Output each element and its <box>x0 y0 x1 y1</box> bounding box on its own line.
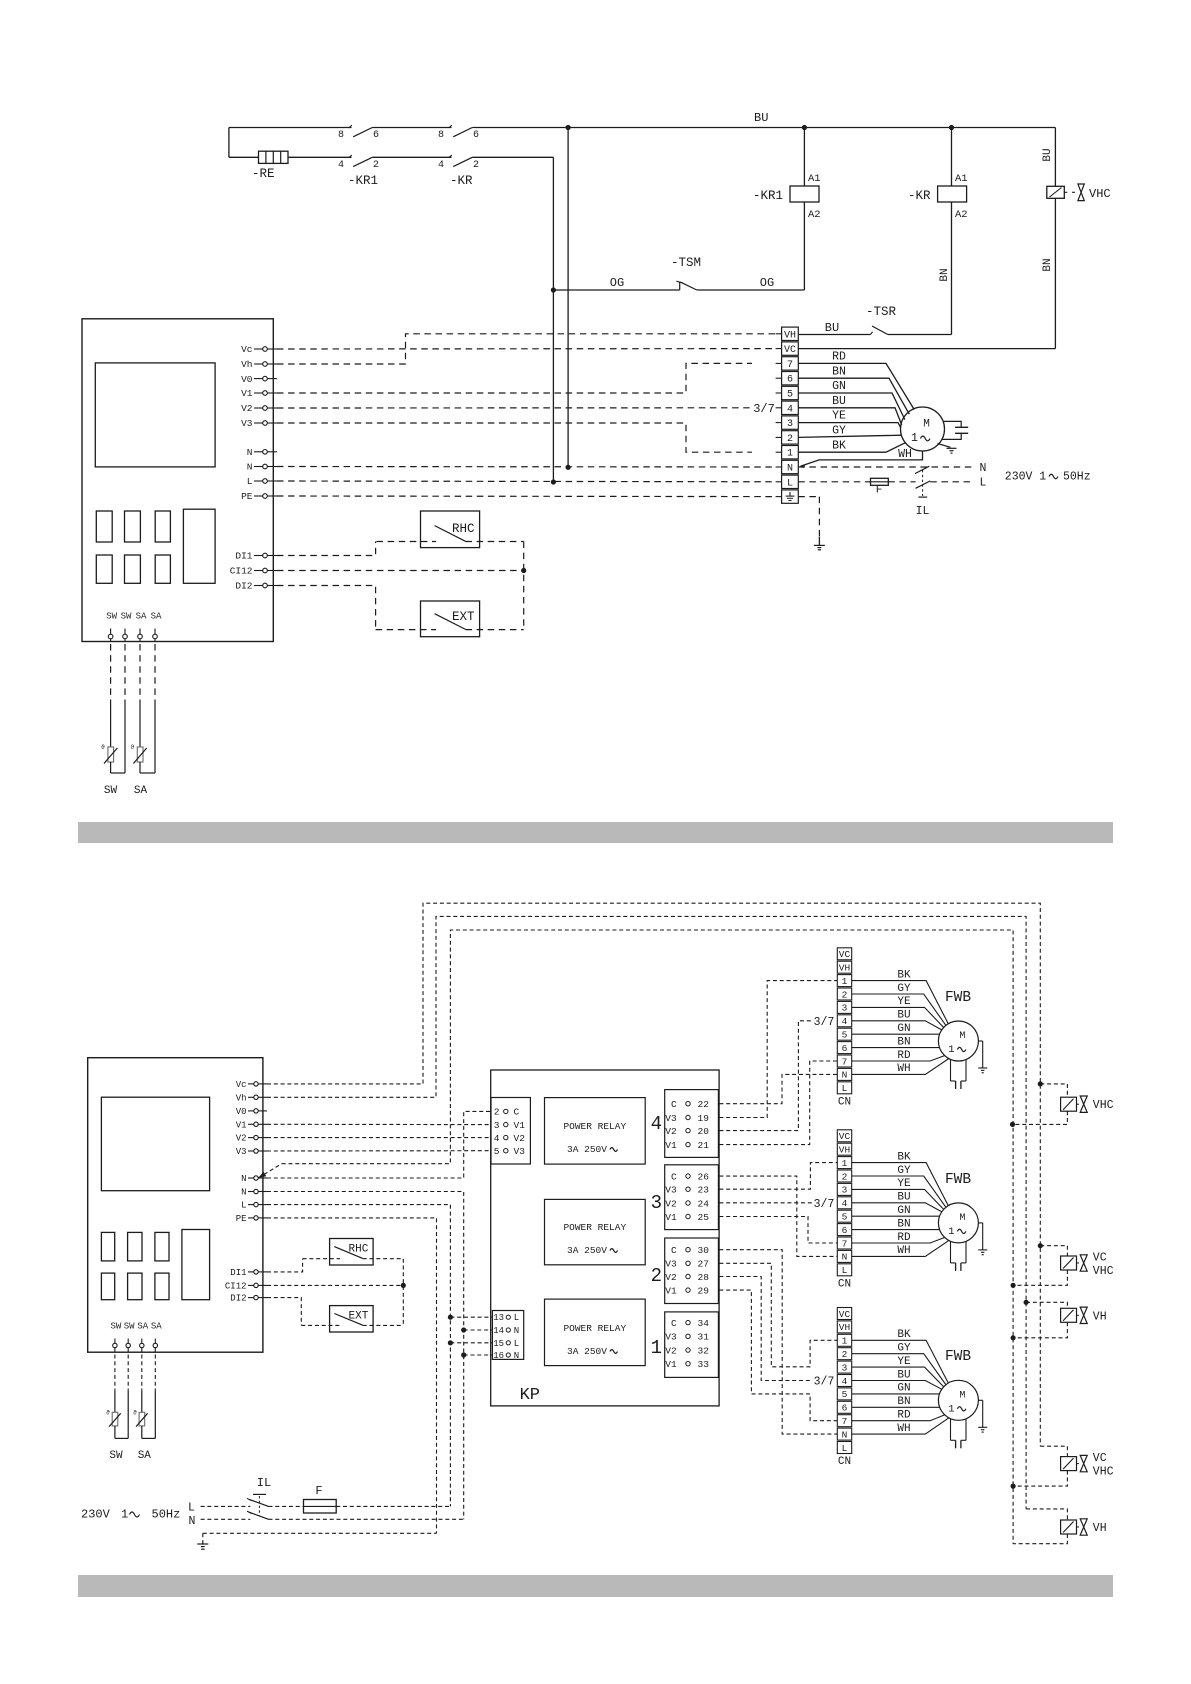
svg-text:FWB: FWB <box>945 1172 971 1188</box>
controller big button (top) <box>183 509 215 583</box>
svg-text:BN: BN <box>1042 258 1054 271</box>
svg-text:BK: BK <box>832 439 846 452</box>
wire V2 to KP input 4 dashed <box>267 1137 491 1139</box>
svg-text:BK: BK <box>897 1151 911 1163</box>
svg-text:SW: SW <box>110 1322 121 1332</box>
fan coil unit FWB 3 terminal strip <box>837 1308 851 1320</box>
svg-text:4: 4 <box>842 1376 848 1387</box>
svg-text:16: 16 <box>493 1351 504 1361</box>
wire KP30 to FWB3 N dashed <box>719 1250 837 1434</box>
svg-text:WH: WH <box>898 448 912 461</box>
svg-text:50Hz: 50Hz <box>1063 470 1091 483</box>
wire N2 down to mains N dashed <box>267 1192 464 1520</box>
svg-text:EXT: EXT <box>349 1311 369 1323</box>
svg-text:3: 3 <box>842 1362 848 1373</box>
wire KP21 to FWB1 7 dashed <box>719 1061 837 1145</box>
valve symbol VHC top <box>1078 184 1084 201</box>
svg-text:VH: VH <box>1093 1310 1107 1323</box>
wire N bus dashed with jog <box>258 1164 282 1178</box>
svg-text:-KR1: -KR1 <box>348 174 378 188</box>
svg-text:SW: SW <box>104 785 118 797</box>
svg-text:15: 15 <box>493 1339 504 1349</box>
svg-text:4: 4 <box>651 1113 662 1135</box>
wire KP28 to FWB3 4 dashed 3/7 <box>719 1277 812 1381</box>
svg-text:33: 33 <box>698 1359 710 1370</box>
switch EXT (bottom) <box>330 1306 374 1332</box>
svg-text:13: 13 <box>493 1313 504 1323</box>
svg-text:BU: BU <box>832 395 846 408</box>
svg-text:N: N <box>247 462 253 473</box>
svg-text:L: L <box>787 478 793 489</box>
svg-text:6: 6 <box>473 130 479 141</box>
svg-text:FWB: FWB <box>945 1349 971 1365</box>
fan coil unit FWB 1 terminal strip <box>837 948 851 960</box>
svg-text:1: 1 <box>948 1403 954 1415</box>
svg-text:POWER RELAY: POWER RELAY <box>563 1222 626 1233</box>
isolator IL (top) <box>915 466 929 473</box>
svg-text:VC: VC <box>1093 1252 1107 1265</box>
wire X1-3 to motor YE <box>798 423 900 428</box>
separator bar 2 <box>78 1575 1113 1597</box>
svg-text:RD: RD <box>897 1232 911 1244</box>
svg-text:8: 8 <box>338 130 344 141</box>
wire left vertical joining feed lines <box>228 128 230 158</box>
wire L line right of strip dashed with fuse <box>798 481 870 483</box>
svg-text:C: C <box>514 1107 520 1118</box>
svg-text:28: 28 <box>698 1272 710 1283</box>
controller buttons (bottom) <box>101 1232 114 1261</box>
thermistor SA (bottom) <box>141 1391 143 1413</box>
svg-text:ϑ: ϑ <box>106 1410 110 1417</box>
svg-text:SW: SW <box>109 1450 123 1462</box>
svg-text:OG: OG <box>760 276 774 290</box>
wire Vc bus dashed <box>267 903 1040 1446</box>
solenoid valve VC VHC zone3 <box>1040 1446 1067 1456</box>
node junction OG line <box>551 287 556 292</box>
svg-text:3: 3 <box>651 1192 662 1214</box>
svg-text:4: 4 <box>494 1133 500 1144</box>
svg-text:ϑ: ϑ <box>133 1410 137 1417</box>
contact -KR 4-2 <box>453 157 472 166</box>
svg-text:V2: V2 <box>514 1133 526 1144</box>
svg-text:N: N <box>842 1429 848 1440</box>
wire right vertical BU-BN x1055 <box>1054 128 1056 187</box>
svg-text:V0: V0 <box>241 374 253 385</box>
svg-text:Vc: Vc <box>241 344 253 355</box>
svg-text:1: 1 <box>842 1158 848 1169</box>
svg-text:-KR1: -KR1 <box>753 189 783 203</box>
wire DI2 dashed to EXT <box>277 586 376 630</box>
wire -KR1 coil drop <box>803 128 805 187</box>
svg-text:6: 6 <box>787 375 793 386</box>
controller big button (bottom) <box>182 1230 210 1300</box>
svg-text:5: 5 <box>787 390 793 401</box>
fan coil FWB 3 wires <box>852 1340 949 1383</box>
svg-text:N: N <box>842 1252 848 1263</box>
wire CI12 dashed common (bottom) <box>267 1284 403 1286</box>
svg-text:VH: VH <box>839 963 850 974</box>
svg-text:V1: V1 <box>665 1285 677 1296</box>
node junction top line x568 <box>566 125 571 130</box>
svg-text:1: 1 <box>911 432 918 445</box>
fan coil FWB 2 wires <box>852 1163 949 1206</box>
svg-text:N: N <box>980 462 987 475</box>
thermostat contact -TSR <box>798 334 870 336</box>
svg-text:1: 1 <box>948 1226 954 1238</box>
svg-text:VC: VC <box>784 345 796 356</box>
wire CI12 dashed common <box>277 570 524 572</box>
svg-text:DI1: DI1 <box>235 551 252 562</box>
svg-text:F: F <box>876 485 883 497</box>
wire -KR coil to TSR line BN <box>951 202 953 335</box>
relay coil -KR <box>938 186 967 202</box>
svg-text:CN: CN <box>838 1456 851 1468</box>
svg-text:CN: CN <box>838 1096 851 1108</box>
svg-text:BN: BN <box>897 1036 910 1048</box>
wire -KR1 coil to TSM line <box>803 202 805 290</box>
svg-text:VH: VH <box>784 330 796 341</box>
svg-text:6: 6 <box>842 1403 848 1414</box>
svg-text:V3: V3 <box>665 1332 677 1343</box>
svg-text:31: 31 <box>698 1332 710 1343</box>
solenoid valve VH zone3 <box>1026 1509 1067 1520</box>
svg-text:19: 19 <box>698 1113 710 1124</box>
svg-text:V3: V3 <box>665 1113 677 1124</box>
relay coil -KR1 <box>790 186 819 202</box>
svg-text:V1: V1 <box>514 1120 526 1131</box>
svg-text:Vh: Vh <box>236 1093 247 1103</box>
svg-text:5: 5 <box>842 1212 848 1223</box>
wire PE to X1-PE dashed <box>277 495 776 498</box>
svg-text:BN: BN <box>897 1396 910 1408</box>
fan coil motor M FWB2 <box>938 1203 978 1243</box>
svg-text:V3: V3 <box>665 1259 677 1270</box>
thermistor SA (top) <box>139 704 141 748</box>
svg-text:CI12: CI12 <box>225 1281 247 1291</box>
svg-text:N: N <box>189 1515 196 1528</box>
wire X1-4 to motor BU <box>798 408 901 425</box>
svg-text:BU: BU <box>754 111 768 125</box>
terminal strip X1 <box>782 327 799 340</box>
ground symbol mains (bottom) <box>202 1541 204 1544</box>
svg-text:-TSM: -TSM <box>671 256 701 270</box>
svg-text:RD: RD <box>832 351 846 364</box>
svg-text:RHC: RHC <box>349 1244 369 1256</box>
svg-text:2: 2 <box>651 1265 662 1287</box>
svg-text:6: 6 <box>842 1225 848 1236</box>
svg-text:A1: A1 <box>955 173 968 185</box>
svg-text:YE: YE <box>897 1356 911 1368</box>
svg-text:M: M <box>923 419 930 431</box>
wire N to KP C input dashed <box>267 1111 491 1178</box>
svg-text:SA: SA <box>137 1322 148 1332</box>
fuse F (top) <box>871 478 889 485</box>
svg-text:26: 26 <box>698 1171 710 1182</box>
controller unit (bottom) outline <box>88 1058 263 1353</box>
wire Vh bus dashed <box>267 916 1026 1509</box>
wire mains L dashed with fuse <box>201 1505 251 1507</box>
svg-text:2: 2 <box>473 160 479 171</box>
isolator IL (bottom) <box>249 1499 268 1506</box>
power relay module 3 <box>545 1199 646 1264</box>
svg-text:F: F <box>315 1484 322 1498</box>
power relay module 4 <box>545 1098 646 1165</box>
svg-text:BK: BK <box>897 969 911 981</box>
svg-text:A1: A1 <box>808 173 821 185</box>
switch EXT (top) <box>421 601 480 637</box>
contact -KR1 8-6 <box>353 128 372 137</box>
svg-text:C: C <box>671 1171 677 1182</box>
svg-text:2: 2 <box>842 1171 848 1182</box>
svg-text:V3: V3 <box>241 418 253 429</box>
svg-text:IL: IL <box>916 505 930 518</box>
wire V3 to X1-1 dashed with jog <box>277 423 752 452</box>
svg-text:BU: BU <box>897 1010 910 1022</box>
controller buttons (top) <box>96 511 112 542</box>
svg-text:230V 1: 230V 1 <box>1005 470 1047 483</box>
svg-text:1: 1 <box>787 449 793 460</box>
KP output group 3 <box>665 1165 719 1230</box>
svg-text:M: M <box>959 1213 965 1224</box>
wire X1-7 to motor RD <box>798 363 914 409</box>
svg-text:N: N <box>241 1174 246 1184</box>
svg-text:50Hz: 50Hz <box>152 1508 181 1522</box>
wire V1 to KP input 3 dashed <box>267 1123 491 1125</box>
svg-text:BN: BN <box>897 1218 910 1230</box>
svg-text:IL: IL <box>257 1476 271 1490</box>
control box KP outline <box>491 1070 719 1406</box>
svg-text:VH: VH <box>1093 1522 1107 1535</box>
wire N line right of strip dashed <box>798 466 974 468</box>
wire KP25 to FWB2 7 dashed <box>719 1217 837 1244</box>
controller display (bottom) <box>101 1097 209 1191</box>
svg-text:L: L <box>188 1502 195 1515</box>
svg-text:WH: WH <box>897 1245 910 1257</box>
svg-text:C: C <box>671 1245 677 1256</box>
svg-text:VHC: VHC <box>1093 1099 1114 1112</box>
svg-text:KP: KP <box>520 1386 540 1405</box>
ground motor M1 <box>938 444 951 448</box>
svg-text:V1: V1 <box>665 1212 677 1223</box>
svg-text:20: 20 <box>698 1126 710 1137</box>
svg-text:BU: BU <box>825 321 839 335</box>
svg-text:-TSR: -TSR <box>866 305 897 319</box>
svg-text:GN: GN <box>897 1023 910 1035</box>
svg-text:C: C <box>671 1099 677 1110</box>
svg-text:4: 4 <box>787 404 793 415</box>
wire L to X1-L dashed <box>277 480 776 483</box>
svg-text:GY: GY <box>897 983 911 995</box>
wire KP23 to FWB2 1 dashed <box>719 1163 837 1190</box>
svg-text:SW: SW <box>106 612 117 622</box>
wire V1 to X1-7 dashed with jog <box>277 363 752 393</box>
svg-text:DI1: DI1 <box>230 1268 246 1278</box>
wire Vh to VH dashed with jog <box>277 334 776 364</box>
KP output group 2 <box>665 1238 719 1304</box>
svg-text:N: N <box>514 1326 519 1336</box>
wire KP19 to FWB1 1 dashed <box>719 981 837 1118</box>
svg-text:2: 2 <box>842 1349 848 1360</box>
svg-text:WH: WH <box>897 1423 910 1435</box>
svg-text:8: 8 <box>438 130 444 141</box>
svg-text:27: 27 <box>698 1259 709 1270</box>
svg-text:30: 30 <box>698 1245 710 1256</box>
svg-text:3A 250V: 3A 250V <box>567 1245 607 1256</box>
svg-text:A2: A2 <box>808 209 821 221</box>
wire Vc to VC dashed <box>277 348 776 350</box>
wire KP24 to FWB2 4 dashed 3/7 <box>719 1202 812 1204</box>
wire L down to mains L dashed <box>267 1205 450 1507</box>
wire vertical L feed x553 <box>552 157 554 482</box>
svg-text:1: 1 <box>121 1508 128 1522</box>
svg-text:L: L <box>980 477 987 490</box>
wire KP20 to FWB1 4 dashed 3/7 <box>719 1021 812 1131</box>
fan coil motor M FWB1 <box>938 1021 978 1061</box>
thermistor SW (bottom) <box>114 1391 116 1413</box>
ground symbol below X1 <box>818 537 820 546</box>
svg-text:14: 14 <box>493 1326 504 1336</box>
capacitor motor M1 <box>943 421 962 427</box>
svg-text:VC: VC <box>839 1309 851 1320</box>
svg-text:L: L <box>842 1443 848 1454</box>
svg-text:V3: V3 <box>665 1185 677 1196</box>
svg-text:VC: VC <box>839 949 851 960</box>
svg-text:EXT: EXT <box>452 610 475 624</box>
KP mains input stubs dashed <box>450 1316 492 1318</box>
svg-text:DI2: DI2 <box>230 1294 246 1304</box>
svg-text:ϑ: ϑ <box>101 744 105 751</box>
svg-text:4: 4 <box>338 160 344 171</box>
svg-text:32: 32 <box>698 1345 710 1356</box>
controller display (top) <box>95 363 215 467</box>
wire X1-6 to motor BN <box>798 378 909 414</box>
svg-text:RHC: RHC <box>452 522 475 536</box>
svg-text:4: 4 <box>842 1016 848 1027</box>
svg-text:GN: GN <box>897 1383 910 1395</box>
svg-text:7: 7 <box>842 1238 848 1249</box>
controller unit (top) outline <box>82 319 273 642</box>
svg-text:VC: VC <box>1093 1452 1107 1465</box>
svg-text:L: L <box>514 1313 519 1323</box>
wire -KR coil drop <box>951 128 953 187</box>
svg-text:PE: PE <box>236 1214 247 1224</box>
svg-text:7: 7 <box>842 1056 848 1067</box>
svg-text:DI2: DI2 <box>235 581 252 592</box>
wire VC line to right vertical <box>798 348 1055 350</box>
wire top feed line BU <box>229 127 352 129</box>
svg-text:A2: A2 <box>955 209 968 221</box>
thermistor SW (top) <box>110 704 112 748</box>
wire X1-5 to motor GN <box>798 393 905 420</box>
wire PE to ground dashed (top) <box>798 496 819 498</box>
node junction N line <box>566 465 571 470</box>
svg-text:6: 6 <box>373 130 379 141</box>
svg-text:VH: VH <box>839 1322 850 1333</box>
svg-text:OG: OG <box>610 276 624 290</box>
svg-text:4: 4 <box>842 1198 848 1209</box>
motor M1 1-phase <box>901 407 945 451</box>
svg-text:23: 23 <box>698 1185 710 1196</box>
svg-text:POWER RELAY: POWER RELAY <box>563 1121 626 1132</box>
svg-text:GY: GY <box>832 425 846 438</box>
wire WH motor to N with arrow <box>801 451 923 466</box>
svg-text:BU: BU <box>897 1369 910 1381</box>
svg-text:N: N <box>787 464 793 475</box>
wire OG line through TSM <box>553 289 679 291</box>
thermostat contact -TSM <box>679 282 681 290</box>
svg-text:5: 5 <box>842 1030 848 1041</box>
svg-text:3A 250V: 3A 250V <box>567 1346 607 1357</box>
KP input terminal block 2-5 <box>491 1098 530 1165</box>
svg-text:M: M <box>959 1390 965 1401</box>
wire N to X1-N dashed <box>277 466 776 469</box>
svg-text:VHC: VHC <box>1089 187 1111 201</box>
svg-text:2: 2 <box>842 989 848 1000</box>
svg-text:3A 250V: 3A 250V <box>567 1144 607 1155</box>
node junction top line x951 <box>949 125 954 130</box>
svg-text:N: N <box>241 1188 246 1198</box>
wire X1-2 to motor GY <box>798 435 901 437</box>
svg-text:VHC: VHC <box>1093 1466 1114 1479</box>
svg-text:V2: V2 <box>665 1345 677 1356</box>
svg-text:N: N <box>514 1351 519 1361</box>
fan coil unit FWB 2 terminal strip <box>837 1130 851 1142</box>
node junction L line <box>551 479 556 484</box>
svg-text:230V: 230V <box>81 1508 111 1522</box>
wire PE down to mains ground dashed <box>267 1218 437 1533</box>
wire mains PE dashed to ground <box>203 1532 437 1534</box>
svg-text:L: L <box>514 1339 519 1349</box>
svg-text:BK: BK <box>897 1329 911 1341</box>
svg-text:WH: WH <box>897 1063 910 1075</box>
wire KP26 to FWB2 N dashed <box>719 1176 837 1256</box>
svg-text:BU: BU <box>1042 148 1054 161</box>
svg-text:7: 7 <box>842 1416 848 1427</box>
svg-text:YE: YE <box>897 996 911 1008</box>
switch RHC (bottom) <box>330 1239 374 1266</box>
svg-text:V3: V3 <box>514 1146 526 1157</box>
svg-text:V1: V1 <box>665 1140 677 1151</box>
contact -KR 8-6 <box>453 128 472 137</box>
fuse F (bottom) <box>304 1500 337 1514</box>
wire KP22 to FWB1 N dashed <box>719 1074 837 1103</box>
svg-text:SA: SA <box>151 1322 162 1332</box>
svg-text:-RE: -RE <box>252 167 275 181</box>
svg-text:2: 2 <box>494 1107 500 1118</box>
svg-text:3/7: 3/7 <box>814 1198 835 1211</box>
svg-text:29: 29 <box>698 1285 710 1296</box>
svg-text:BN: BN <box>832 365 846 378</box>
wire KP27 to FWB3 1 dashed <box>719 1263 837 1367</box>
svg-text:SA: SA <box>151 612 162 622</box>
svg-text:V1: V1 <box>241 388 253 399</box>
solenoid valve VHC zone1 <box>1038 1081 1043 1086</box>
svg-text:22: 22 <box>698 1099 710 1110</box>
wire V2 to X1-4 dashed 3/7 <box>277 407 750 409</box>
fan coil FWB 1 wires <box>852 981 949 1024</box>
resistor -RE heating element <box>259 151 289 163</box>
svg-text:RD: RD <box>897 1050 911 1062</box>
svg-text:C: C <box>671 1318 677 1329</box>
svg-text:2: 2 <box>373 160 379 171</box>
svg-text:VC: VC <box>839 1131 851 1142</box>
svg-text:ϑ: ϑ <box>130 744 134 751</box>
KP input terminal block 13-16 <box>492 1311 523 1360</box>
svg-text:1: 1 <box>842 976 848 987</box>
svg-text:V1: V1 <box>236 1120 247 1130</box>
svg-text:3/7: 3/7 <box>753 402 775 416</box>
svg-text:1: 1 <box>948 1044 954 1056</box>
